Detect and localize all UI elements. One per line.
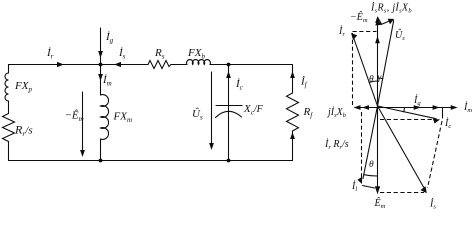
svg-text:İs: İs — [429, 198, 436, 211]
svg-text:İf: İf — [300, 76, 308, 90]
svg-text:İc: İc — [235, 78, 244, 92]
svg-text:İsRs, jİsXb: İsRs, jİsXb — [370, 2, 412, 15]
svg-text:FXb: FXb — [187, 47, 205, 61]
svg-text:İr Rr/s: İr Rr/s — [324, 138, 349, 151]
svg-text:İr: İr — [338, 25, 345, 38]
svg-text:−Êm: −Êm — [65, 110, 84, 124]
svg-text:İm: İm — [102, 74, 112, 88]
svg-text:−Êm: −Êm — [350, 11, 368, 24]
svg-text:İm: İm — [463, 101, 472, 114]
svg-text:FXp: FXp — [14, 80, 32, 94]
svg-text:İc: İc — [444, 117, 451, 130]
svg-text:İl: İl — [351, 180, 357, 193]
svg-text:Êm: Êm — [374, 197, 386, 210]
svg-text:Ûs: Ûs — [395, 29, 405, 42]
svg-text:İs: İs — [118, 47, 126, 61]
svg-text:Rr/s: Rr/s — [14, 123, 33, 139]
svg-text:İr: İr — [46, 47, 54, 61]
svg-text:θ: θ — [369, 75, 374, 85]
svg-text:Xc/F: Xc/F — [243, 103, 264, 117]
svg-text:Ûs: Ûs — [192, 108, 203, 122]
svg-text:jİsXb: jİsXb — [326, 106, 347, 119]
svg-text:Rf: Rf — [303, 106, 314, 120]
svg-text:FXm: FXm — [113, 111, 133, 125]
svg-text:İg: İg — [105, 31, 114, 45]
svg-text:γ: γ — [378, 73, 382, 83]
svg-text:Rs: Rs — [154, 47, 165, 61]
svg-text:θ: θ — [369, 160, 374, 170]
svg-text:İg: İg — [413, 94, 421, 107]
